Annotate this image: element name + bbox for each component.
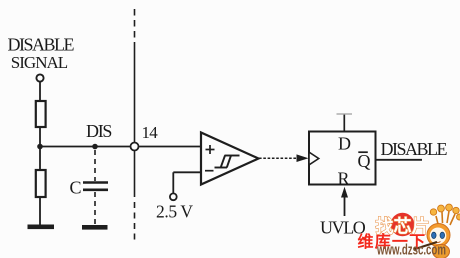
IC boundary dashed line bottom <box>134 202 136 241</box>
op-amp comparator U1 <box>201 133 259 185</box>
watermark mascot mouth <box>436 241 441 244</box>
input terminal circle <box>36 74 43 81</box>
wire 2.5V to minus input <box>173 171 201 173</box>
watermark red circle behind middle char <box>391 213 415 237</box>
wire D input tie high <box>343 114 345 132</box>
plus input mark <box>206 145 215 154</box>
IC boundary dashed line top <box>134 9 136 47</box>
pin 14 node open circle <box>131 143 139 151</box>
svg-text:C: C <box>70 177 82 197</box>
minus input mark <box>205 170 214 172</box>
svg-text:R: R <box>338 169 350 189</box>
arrowhead into clock <box>297 154 309 162</box>
label DISABLE SIGNAL <box>8 34 75 72</box>
wire Q output <box>376 159 423 161</box>
wire pin14 to comparator <box>139 146 202 148</box>
svg-text:14: 14 <box>142 123 159 142</box>
watermark mascot head <box>427 224 450 247</box>
resistor R2 <box>36 170 46 197</box>
wire R1 to junction <box>39 127 41 170</box>
wire comparator output dashed <box>259 157 298 159</box>
svg-text:DISABLE: DISABLE <box>381 139 448 159</box>
watermark mascot stick <box>414 242 438 250</box>
svg-text:SIGNAL: SIGNAL <box>11 53 68 72</box>
UVLO arrowhead <box>341 187 348 198</box>
flip-flop U2 box <box>309 132 376 185</box>
capacitor C dashed top lead <box>94 150 96 181</box>
hysteresis symbol <box>215 156 240 168</box>
svg-text:DIS: DIS <box>86 121 111 141</box>
watermark url text <box>376 242 446 258</box>
svg-text:2.5 V: 2.5 V <box>156 202 193 222</box>
wire 2.5V up <box>172 172 174 193</box>
svg-text:Q: Q <box>358 151 371 171</box>
node DIS <box>92 144 98 150</box>
clock input triangle <box>309 152 319 165</box>
Q overline <box>358 151 368 153</box>
IC boundary solid line <box>134 47 136 197</box>
wire terminal to R1 <box>39 82 41 101</box>
watermark mascot eyes <box>432 232 437 238</box>
resistor R1 <box>36 101 46 127</box>
watermark mascot crown bulbs <box>430 204 460 225</box>
svg-text:DISABLE: DISABLE <box>8 34 75 54</box>
watermark mascot face <box>430 228 447 245</box>
2.5V reference terminal <box>170 193 177 200</box>
ground <box>28 225 55 230</box>
ground under capacitor <box>82 225 108 230</box>
UVLO arrow wire <box>344 194 346 216</box>
svg-text:D: D <box>338 134 351 154</box>
svg-text:www.dzsc.com: www.dzsc.com <box>376 242 446 258</box>
watermark mascot body <box>433 245 450 258</box>
capacitor C plates <box>83 181 108 184</box>
capacitor C dashed bottom lead <box>94 192 96 224</box>
wire DIS net horizontal <box>40 146 131 148</box>
D input crossbar <box>337 113 353 115</box>
node junction at divider <box>37 144 43 150</box>
wire R2 to ground <box>39 197 41 225</box>
watermark dzsc logo <box>358 204 460 258</box>
